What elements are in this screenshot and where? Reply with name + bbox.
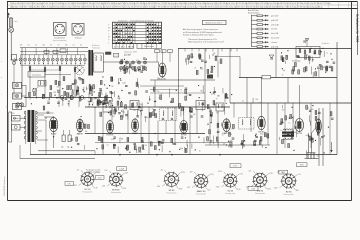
label Drucktastenaggregat — [28, 72, 45, 78]
svg-text:70: 70 — [216, 98, 218, 100]
svg-text:T: T — [108, 24, 109, 26]
svg-text:50: 50 — [199, 54, 201, 56]
IF can Fi4 — [196, 101, 205, 110]
wire right-edge drop — [336, 42, 338, 155]
wire ground fork upper — [38, 150, 95, 152]
IF can Fi1b — [130, 101, 139, 110]
wire long verticals — [204, 48, 206, 107]
wire detector rail — [205, 144, 270, 146]
wire mid rail c — [150, 89, 179, 91]
FM tuner box — [94, 53, 104, 72]
B+ rail stubs — [184, 48, 186, 51]
svg-text:ECC 85: ECC 85 — [159, 79, 167, 81]
svg-text:10k: 10k — [137, 110, 140, 112]
svg-text:a: a — [1, 61, 2, 63]
band filter resistors under switch — [29, 67, 31, 71]
socket Bu1 Tonabnehmer (front view) — [53, 23, 67, 42]
svg-text:gelb 0,3A: gelb 0,3A — [271, 45, 279, 48]
wire FM-AM boundary — [178, 49, 180, 108]
electrolytic caps — [61, 130, 71, 149]
svg-text:6,8k: 6,8k — [110, 79, 113, 81]
mixer left parts — [53, 77, 86, 100]
svg-text:0,1: 0,1 — [73, 44, 75, 46]
wire band-switch drop — [29, 65, 31, 98]
svg-text:EL 84: EL 84 — [228, 191, 234, 193]
input arrow connector — [14, 59, 17, 62]
svg-text:(von vorn gesehen): (von vorn gesehen) — [53, 40, 67, 42]
svg-text:blau 0,3A: blau 0,3A — [271, 32, 279, 35]
IF strip upper components — [108, 109, 157, 122]
svg-text:L: L — [121, 34, 122, 36]
wire gang link — [157, 77, 159, 80]
wire mid rail b — [150, 92, 205, 94]
svg-text:1n: 1n — [226, 97, 228, 99]
svg-text:300: 300 — [89, 86, 92, 88]
ratio detector transformer Fi3 — [239, 118, 255, 130]
svg-text:L: L — [126, 37, 127, 39]
svg-text:47k: 47k — [227, 121, 230, 123]
svg-text:o: o — [113, 37, 114, 39]
value tag — [114, 53, 119, 57]
svg-text:ECH 81: ECH 81 — [112, 190, 120, 192]
wire AM input bus — [24, 97, 112, 99]
svg-text:EC 92: EC 92 — [85, 189, 92, 191]
wire tuner to V1 — [103, 61, 158, 63]
tube socket EF 89 (bottom view) — [157, 170, 186, 195]
svg-text:0,1: 0,1 — [195, 107, 197, 109]
svg-text:Dipol: Dipol — [14, 21, 18, 23]
svg-text:0,05: 0,05 — [181, 108, 184, 110]
rectifier tube V8 EZ80 — [49, 117, 57, 131]
svg-text:EF 89: EF 89 — [181, 135, 187, 137]
IF can Fi5 — [216, 103, 224, 111]
svg-text:6,8k: 6,8k — [128, 66, 131, 68]
svg-text:EM 80: EM 80 — [258, 131, 265, 133]
wire speaker drop leads — [308, 133, 310, 153]
svg-text:500: 500 — [193, 114, 196, 116]
svg-text:25p: 25p — [157, 91, 160, 93]
svg-text:Drucktasten: Drucktasten — [32, 74, 41, 77]
svg-text:Lötseite gesehen: Lötseite gesehen — [86, 171, 99, 174]
mid small parts — [145, 87, 177, 102]
mains plug and fuse — [11, 113, 26, 130]
wire AF rail — [239, 77, 337, 79]
svg-text:5: 5 — [128, 31, 129, 33]
wire speaker leads — [318, 108, 320, 166]
svg-text:Widerstandswerte in Ω, Kondens: Widerstandswerte in Ω, Kondensatoren in … — [188, 40, 225, 43]
tube V2 ECH81 — [107, 121, 114, 134]
dial lamps La1 La2 — [16, 103, 20, 107]
svg-text:25p: 25p — [320, 66, 323, 68]
svg-text:gelb 6,3V: gelb 6,3V — [271, 20, 279, 22]
svg-text:47k: 47k — [20, 44, 23, 46]
svg-text:12k: 12k — [142, 149, 145, 151]
psu small parts — [43, 106, 45, 110]
svg-text:30p: 30p — [100, 94, 103, 96]
svg-text:300: 300 — [216, 113, 219, 115]
svg-text:5n: 5n — [84, 99, 86, 101]
tube socket EL 84 (bottom view) — [216, 171, 244, 195]
svg-text:Tr1 0,1µ 2M 1k C12 100 R7 47k: Tr1 0,1µ 2M 1k C12 100 R7 47k 0,5µ 30p R… — [10, 2, 330, 5]
svg-text:Tonblende: Tonblende — [322, 43, 329, 45]
push-button switch contact row S1 — [19, 48, 86, 65]
svg-text:EABC 80: EABC 80 — [197, 190, 206, 193]
svg-text:ECH 81: ECH 81 — [106, 135, 114, 137]
wire switch-row feed 2 — [20, 51, 88, 53]
wire HT rail right — [230, 102, 352, 104]
speaker plug — [305, 153, 319, 159]
svg-text:10k: 10k — [101, 140, 104, 142]
svg-text:10k: 10k — [85, 131, 88, 133]
wire input joins — [25, 85, 27, 106]
input terminal E — [7, 93, 26, 99]
wire rectifier leads — [44, 116, 54, 118]
svg-text:0,5: 0,5 — [28, 44, 30, 46]
svg-text:220V~: 220V~ — [11, 113, 16, 115]
coupling filter left — [12, 55, 17, 61]
tube socket EABC 80 (bottom view) — [187, 172, 215, 196]
wire diagonal to speaker — [312, 124, 320, 133]
svg-text:L: L — [125, 46, 126, 48]
wire band-switch drop — [44, 65, 46, 98]
wire band-switch drop — [74, 65, 76, 98]
svg-text:3: 3 — [123, 37, 124, 39]
svg-text:500p 50p L7 Dr1 W5 L7 500p 25µ: 500p 50p L7 Dr1 W5 L7 500p 25µ R21 2k R2… — [10, 5, 322, 8]
tube socket EM 80 (bottom view) — [246, 171, 274, 195]
AM front-end components — [29, 84, 112, 107]
shielded component — [207, 75, 213, 79]
svg-text:6,8k: 6,8k — [133, 70, 136, 72]
wire band-switch drop — [59, 65, 61, 98]
switch coupling boxes — [44, 50, 49, 53]
feedback components mid — [213, 48, 222, 77]
svg-text:47k: 47k — [121, 61, 124, 63]
svg-text:30p: 30p — [283, 70, 286, 72]
svg-text:8µ: 8µ — [45, 97, 47, 99]
arrow output — [331, 142, 333, 151]
parts above V1 — [155, 50, 160, 53]
svg-text:6,8k: 6,8k — [140, 66, 143, 68]
tube V1 ECC85 — [159, 63, 167, 77]
svg-text:70: 70 — [211, 94, 213, 96]
svg-text:70: 70 — [180, 106, 182, 108]
svg-text:50: 50 — [92, 99, 94, 101]
output transformer Tr2 — [282, 129, 294, 140]
svg-text:47k: 47k — [65, 44, 68, 46]
IF top band parts — [89, 100, 227, 118]
svg-text:250p: 250p — [179, 148, 183, 150]
svg-text:EF 89: EF 89 — [169, 190, 175, 192]
svg-text:weiß 0,3A: weiß 0,3A — [271, 23, 279, 26]
svg-text:Tonabnehmer: Tonabnehmer — [54, 38, 65, 40]
wire mid link — [215, 56, 240, 58]
tube socket EZ 80 (bottom view) — [274, 171, 302, 196]
tube V7 EL84 — [295, 119, 304, 132]
wire B+ top rail — [178, 48, 352, 50]
svg-text:1n: 1n — [186, 94, 188, 96]
detector components — [207, 110, 269, 149]
svg-text:Skalenlampen: Skalenlampen — [248, 13, 259, 15]
socket annotation tags — [117, 167, 127, 171]
svg-text:5n: 5n — [282, 75, 284, 77]
wire IF top rail — [85, 106, 230, 108]
svg-text:50: 50 — [242, 100, 244, 102]
note box — [203, 20, 227, 24]
svg-text:rot 6,3V: rot 6,3V — [271, 28, 278, 31]
tube V6 EM80 — [257, 116, 265, 129]
wire AVC bus — [85, 133, 205, 135]
tube socket EC 92 (bottom view) — [73, 170, 101, 194]
input terminal A — [7, 82, 26, 88]
input terminal TA — [6, 104, 26, 110]
svg-text:EM 80: EM 80 — [257, 190, 264, 192]
svg-text:30p: 30p — [158, 142, 161, 144]
svg-text:10k: 10k — [307, 107, 310, 109]
FM tuner shield bars — [88, 50, 90, 76]
wire IF lower band rail — [95, 142, 230, 144]
svg-text:1n: 1n — [242, 147, 244, 149]
IF transformer Fi1 — [103, 103, 112, 112]
svg-text:6,3V~: 6,3V~ — [233, 166, 237, 168]
label box on AF rail — [262, 75, 271, 79]
svg-text:500: 500 — [282, 110, 285, 112]
svg-text:10k: 10k — [145, 145, 148, 147]
svg-text:100k: 100k — [158, 98, 162, 100]
svg-text:o: o — [123, 27, 124, 29]
voltage selector — [9, 112, 12, 142]
parts strip separators — [11, 2, 13, 9]
svg-text:300: 300 — [56, 86, 59, 88]
svg-text:0,1: 0,1 — [324, 66, 326, 68]
svg-text:50µ: 50µ — [61, 147, 64, 149]
svg-text:10,7 MHz: 10,7 MHz — [124, 54, 131, 56]
svg-text:L: L — [121, 37, 122, 39]
svg-text:Tastensatz: Tastensatz — [92, 46, 100, 49]
svg-text:8µ: 8µ — [121, 90, 123, 92]
svg-text:70: 70 — [180, 89, 182, 91]
tube V5 EABC80 — [223, 119, 231, 132]
svg-text:L: L — [108, 33, 109, 35]
svg-text:0,1: 0,1 — [80, 44, 82, 46]
svg-text:0,1: 0,1 — [106, 144, 108, 146]
ground bus — [30, 154, 337, 156]
push-button switch position table — [108, 19, 161, 48]
svg-text:1n: 1n — [326, 53, 328, 55]
AF preamp cluster — [281, 48, 335, 77]
IF strip lower components — [96, 133, 220, 156]
svg-text:EL 84: EL 84 — [297, 133, 303, 135]
wire V1 plate to rail — [161, 50, 163, 62]
IF transformer Fi2 — [160, 108, 177, 121]
tube V9 EF89 left — [77, 119, 84, 132]
wire mid rail a — [140, 85, 184, 87]
svg-text:b: b — [1, 77, 2, 79]
svg-text:300: 300 — [200, 68, 203, 70]
svg-text:4090 W/3D Germany: 4090 W/3D Germany — [3, 176, 6, 196]
svg-text:8µ: 8µ — [281, 57, 283, 59]
svg-text:5n: 5n — [222, 134, 224, 136]
mid-right text labels — [216, 94, 262, 105]
svg-text:300: 300 — [243, 141, 246, 143]
svg-text:1n: 1n — [280, 130, 282, 132]
tube socket ECH 81 (bottom view) — [102, 170, 129, 194]
svg-text:x: x — [131, 40, 132, 42]
socket Bu2 Tonband (front view) — [72, 24, 84, 40]
tone control cap — [270, 57, 272, 60]
svg-text:Schalter in Stellung UKW, ohne: Schalter in Stellung UKW, ohne Signal — [183, 33, 214, 36]
svg-text:schwarz: schwarz — [271, 41, 277, 44]
svg-text:Schaltplan für 4090: Schaltplan für 4090 — [355, 14, 359, 43]
svg-text:2k: 2k — [194, 67, 196, 69]
output stage components — [279, 105, 333, 158]
svg-text:10k: 10k — [230, 134, 233, 136]
svg-text:5n: 5n — [199, 150, 201, 152]
svg-text:grün 6,3V: grün 6,3V — [271, 15, 279, 18]
svg-text:250p: 250p — [57, 90, 61, 92]
svg-text:Alle Spannungen gegen Chassis: Alle Spannungen gegen Chassis gemessen — [183, 28, 218, 31]
tube V4 EF89-II — [180, 121, 188, 134]
svg-text:50µ: 50µ — [67, 147, 70, 149]
svg-text:47k: 47k — [43, 44, 46, 46]
wire heater feed — [36, 112, 54, 114]
svg-text:12k: 12k — [223, 143, 226, 145]
svg-text:5: 5 — [113, 40, 114, 42]
trimmer block — [105, 52, 111, 55]
tube V3 EF89 — [132, 119, 139, 132]
power area parts — [70, 116, 89, 150]
wire switch-row feed — [20, 47, 88, 49]
dial lamp selector ladder — [248, 9, 280, 48]
switch contact row S2 — [119, 61, 146, 70]
wire left gang drop — [21, 48, 23, 98]
mid text cluster — [180, 54, 227, 101]
antenna input group — [8, 13, 18, 61]
svg-text:o: o — [113, 31, 114, 33]
svg-text:2k: 2k — [29, 99, 31, 101]
svg-text:0,1: 0,1 — [48, 100, 50, 102]
tuner components — [121, 55, 147, 74]
svg-text:5k: 5k — [35, 44, 37, 46]
svg-text:70: 70 — [58, 44, 60, 46]
svg-text:EZ 80: EZ 80 — [51, 133, 57, 135]
svg-text:EZ 80: EZ 80 — [286, 192, 292, 194]
svg-text:0,1: 0,1 — [76, 86, 78, 88]
wire IF lower rail — [150, 79, 215, 81]
volume potentiometer — [228, 141, 232, 147]
svg-text:47k: 47k — [136, 60, 139, 62]
svg-text:Klangregler: Klangregler — [292, 60, 301, 63]
svg-text:300: 300 — [75, 95, 78, 97]
svg-text:300: 300 — [53, 92, 56, 94]
power transformer Tr1 — [24, 110, 37, 144]
wire switch links — [45, 73, 71, 75]
wire HT secondary — [36, 119, 46, 121]
svg-text:47k: 47k — [231, 128, 234, 130]
svg-text:Tonband: Tonband — [75, 38, 82, 40]
coil box near inputs — [38, 81, 46, 87]
svg-text:25p: 25p — [94, 107, 97, 109]
svg-text:25p: 25p — [317, 156, 320, 158]
svg-text:1n: 1n — [37, 87, 39, 89]
svg-text:500: 500 — [255, 99, 258, 101]
svg-text:Meßwerte bei 220 V~: Meßwerte bei 220 V~ — [206, 21, 223, 24]
oscillator cluster below — [89, 76, 139, 104]
svg-text:250p: 250p — [260, 134, 264, 136]
svg-text:Skalenlampen: Skalenlampen — [144, 46, 154, 48]
svg-text:70: 70 — [50, 44, 52, 46]
svg-text:EF 89: EF 89 — [77, 133, 83, 135]
svg-text:braun 6,3V: braun 6,3V — [271, 37, 280, 40]
svg-text:25p: 25p — [122, 111, 125, 113]
svg-text:300: 300 — [112, 116, 115, 118]
tuning gang symbol — [75, 66, 84, 75]
svg-text:2k: 2k — [92, 102, 94, 104]
tone filter block — [296, 39, 329, 58]
svg-text:1n: 1n — [289, 123, 291, 125]
svg-text:L: L — [108, 43, 109, 45]
tube EM80 indicator — [316, 119, 322, 133]
svg-text:0,05: 0,05 — [305, 54, 308, 56]
wire bias tap — [36, 130, 42, 132]
svg-text:mit Röhrenvoltmeter 10 MΩ Eing: mit Röhrenvoltmeter 10 MΩ Eingangswiders… — [183, 31, 222, 34]
wire switch-row lower link — [21, 64, 85, 66]
wire ground fork lower — [20, 158, 95, 160]
